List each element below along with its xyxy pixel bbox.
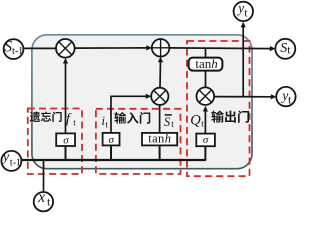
forget gate dashed box <box>28 109 82 175</box>
multiply node 3 (output gate product) <box>197 87 215 105</box>
wire: tanh box to multiply3 <box>205 71 207 88</box>
wire: rail stub to sigma-input <box>110 145 112 160</box>
wire: rail stub to sigma-output <box>204 146 206 161</box>
node St-1 (previous cell state) <box>4 39 24 59</box>
svg-text:σ: σ <box>108 134 114 146</box>
wire: multiply3 to yt right (arrow) <box>214 96 272 98</box>
sigma box (output gate) <box>196 134 215 147</box>
svg-text:tanh: tanh <box>148 132 171 146</box>
label input-gate text 输入门 <box>114 112 150 124</box>
node yt (output, top) <box>234 1 253 21</box>
wire: multiply1 to add node (arrow) <box>75 47 148 49</box>
wire: branch up to yt top (arrow) <box>242 26 244 97</box>
wire: sigma-output up to multiply3 (arrow) <box>204 110 206 134</box>
node yt (output, right) <box>276 87 295 107</box>
tanh box (input gate) <box>142 133 177 146</box>
LSTM cell body <box>32 35 252 169</box>
sigma box (forget gate) <box>56 133 75 146</box>
svg-text:tanh: tanh <box>195 56 217 71</box>
wire: sigma-forget up to multiply1 (arrow) <box>65 62 67 134</box>
label output-gate text 输出门 <box>211 110 249 122</box>
svg-text:x: x <box>37 189 45 206</box>
wire: sigma-input up and right to multiply2 (arrow) <box>111 96 148 133</box>
wire: xt up to rail <box>43 160 45 193</box>
wire: add node to St (arrow) <box>169 47 271 50</box>
node St (cell state output) <box>275 39 295 59</box>
svg-text:σ: σ <box>203 134 209 146</box>
svg-text:1: 1 <box>18 46 23 57</box>
svg-text:S: S <box>280 41 287 56</box>
node yt-1 (previous output) <box>1 150 22 171</box>
svg-text:y: y <box>280 88 288 103</box>
svg-text:Q: Q <box>190 113 201 129</box>
wire: branch down to tanh box <box>205 48 207 57</box>
add node (new cell state sum) <box>152 39 170 57</box>
wire: rail stub to sigma-forget <box>65 146 67 161</box>
svg-text:σ: σ <box>63 134 69 146</box>
multiply node 2 (input gate product) <box>151 88 168 105</box>
svg-text:y: y <box>236 1 244 16</box>
label forget-gate text 遗忘门 <box>30 112 62 122</box>
output gate dashed box <box>187 41 250 176</box>
tanh box (output branch) <box>189 58 223 71</box>
svg-text:1: 1 <box>16 158 21 169</box>
wire: rail stub to tanh-input <box>159 145 161 160</box>
wire: input rail from yt-1 <box>21 159 205 161</box>
sigma box (input gate) <box>103 133 120 146</box>
svg-text:S: S <box>164 115 171 129</box>
wire: multiply2 up to add node (arrow) <box>159 60 162 88</box>
node xt (input) <box>34 189 53 211</box>
svg-text:y: y <box>1 150 10 165</box>
wire: cell state St-1 to multiply1 <box>23 47 56 49</box>
multiply node 1 (forget gate product) <box>56 39 75 58</box>
wire: tanh-input up to multiply2 <box>159 105 161 133</box>
input gate dashed box <box>96 109 181 174</box>
